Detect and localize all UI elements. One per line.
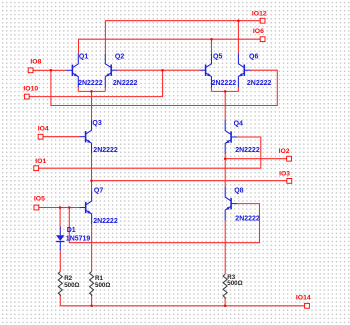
diode D1 1N5719: [56, 227, 64, 251]
wire: node down to Q7 collector: [91, 181, 93, 191]
junction Q1/Q2 emitter tail node: [90, 90, 93, 93]
wire: node to IO2: [225, 158, 287, 160]
wire: R3 bottom lead: [224, 297, 226, 306]
wire: Q1/Q2 emitter bar, junction tail down to Q3: [78, 87, 105, 120]
svg-text:Q1: Q1: [79, 53, 88, 60]
junction Q6 collector node on IO12 rail: [237, 19, 240, 22]
wire: R1 bottom lead: [91, 295, 93, 306]
svg-text:IO12: IO12: [252, 11, 267, 18]
junction Q3 emitter node to IO3: [90, 179, 93, 182]
junction IO10 node at Q2/Q5 base wire: [161, 69, 164, 72]
wire: Q2 base to Q5 base: [117, 69, 199, 71]
terminal IO6: [260, 37, 265, 42]
wire: IO8 net down, across and up to Q6 base: [51, 70, 277, 105]
svg-text:Q8: Q8: [234, 187, 243, 194]
svg-text:2N2222: 2N2222: [235, 147, 260, 154]
svg-text:Q7: Q7: [94, 188, 103, 195]
wire: IO5 net down, across and up to Q8 base: [69, 204, 259, 243]
transistor Q3: [79, 120, 91, 154]
wire: Q4 emitter to node: [224, 154, 226, 159]
junction R3 node on bottom bus: [224, 305, 227, 308]
wire: Q1 collector riser and rail to IO6: [79, 39, 261, 53]
svg-text:IO1: IO1: [35, 158, 46, 165]
resistor R1 500ohm: [90, 272, 94, 297]
resistor R3 500ohm: [223, 274, 227, 299]
wire: Q5/Q6 emitter bar, junction tail down to Q4: [212, 87, 239, 120]
wire: IO10 to riser joining base wire: [29, 70, 162, 96]
svg-text:IO3: IO3: [279, 171, 290, 178]
junction Q4 emitter node to IO2: [224, 157, 227, 160]
svg-text:Q5: Q5: [213, 53, 222, 60]
wire: Q7 emitter down to R1: [91, 225, 93, 272]
wire: Q8 emitter down to R3: [224, 221, 226, 275]
svg-text:Q6: Q6: [249, 53, 258, 60]
terminal IO5: [34, 205, 39, 210]
transistor Q5: [199, 53, 211, 87]
transistor Q1: [66, 53, 78, 87]
svg-text:Q3: Q3: [92, 120, 101, 127]
junction Q5/Q6 emitter tail node: [224, 90, 227, 93]
wire: IO5 to Q7 base: [39, 207, 80, 209]
wire: D1 cathode down to R2: [59, 251, 61, 272]
wire: node down to Q8 collector: [224, 159, 226, 187]
svg-text:Q4: Q4: [234, 121, 243, 128]
svg-text:2N2222: 2N2222: [212, 80, 237, 87]
svg-text:2N2222: 2N2222: [93, 147, 118, 154]
junction IO8 node at Q1 base: [50, 69, 53, 72]
svg-text:IO5: IO5: [34, 196, 45, 203]
svg-text:2N2222: 2N2222: [78, 80, 103, 87]
wire: R2 bottom lead: [59, 295, 61, 306]
wire: Q6 collector riser: [237, 21, 239, 54]
svg-text:D1: D1: [67, 227, 76, 234]
svg-text:500Ω: 500Ω: [64, 282, 79, 289]
svg-text:2N2222: 2N2222: [113, 80, 138, 87]
terminal IO4: [38, 134, 43, 139]
svg-text:IO10: IO10: [23, 85, 38, 92]
terminal IO1: [34, 166, 39, 171]
terminal IO12: [260, 18, 265, 23]
transistor Q8: [225, 187, 237, 221]
transistor Q4: [225, 120, 237, 154]
terminal IO3: [287, 179, 292, 184]
wire: Q5 collector riser: [211, 39, 213, 53]
resistor R2 500ohm: [58, 272, 62, 297]
transistor Q6: [238, 53, 250, 87]
wire: Q3 emitter down to node: [91, 154, 93, 181]
wire: IO8 to Q1 base: [33, 69, 66, 71]
junction Q5 collector node on IO6 rail: [210, 38, 213, 41]
wire: Q2 collector riser and top rail to IO12: [105, 21, 260, 53]
junction IO5 node to Q8 base: [68, 206, 71, 209]
wire: IO4 to Q3 base: [43, 136, 79, 138]
svg-text:IO2: IO2: [279, 148, 290, 155]
transistor Q7: [80, 191, 92, 225]
svg-text:2N2222: 2N2222: [93, 218, 118, 225]
junction R1 node on bottom bus: [90, 305, 93, 308]
svg-text:Q2: Q2: [115, 53, 124, 60]
svg-text:500Ω: 500Ω: [95, 282, 110, 289]
svg-text:IO4: IO4: [38, 125, 49, 132]
wire: junction down to D1 anode: [59, 208, 61, 227]
svg-text:IO8: IO8: [30, 59, 41, 66]
terminal IO14: [305, 303, 310, 308]
svg-text:500Ω: 500Ω: [227, 280, 242, 287]
svg-text:IO14: IO14: [296, 295, 311, 302]
svg-text:1N5719: 1N5719: [66, 236, 91, 243]
svg-text:2N2222: 2N2222: [235, 216, 260, 223]
transistor Q2: [105, 53, 117, 87]
terminal IO10: [24, 94, 29, 99]
wire: bottom bus to IO14: [60, 305, 304, 307]
wire: node to IO3: [92, 180, 287, 182]
terminal IO2: [287, 156, 292, 161]
junction IO5 node to D1: [59, 206, 62, 209]
wire: IO1 across, up to Q4 base: [39, 137, 261, 168]
svg-text:IO6: IO6: [253, 28, 264, 35]
svg-text:2N2222: 2N2222: [247, 80, 272, 87]
terminal IO8: [28, 68, 33, 73]
